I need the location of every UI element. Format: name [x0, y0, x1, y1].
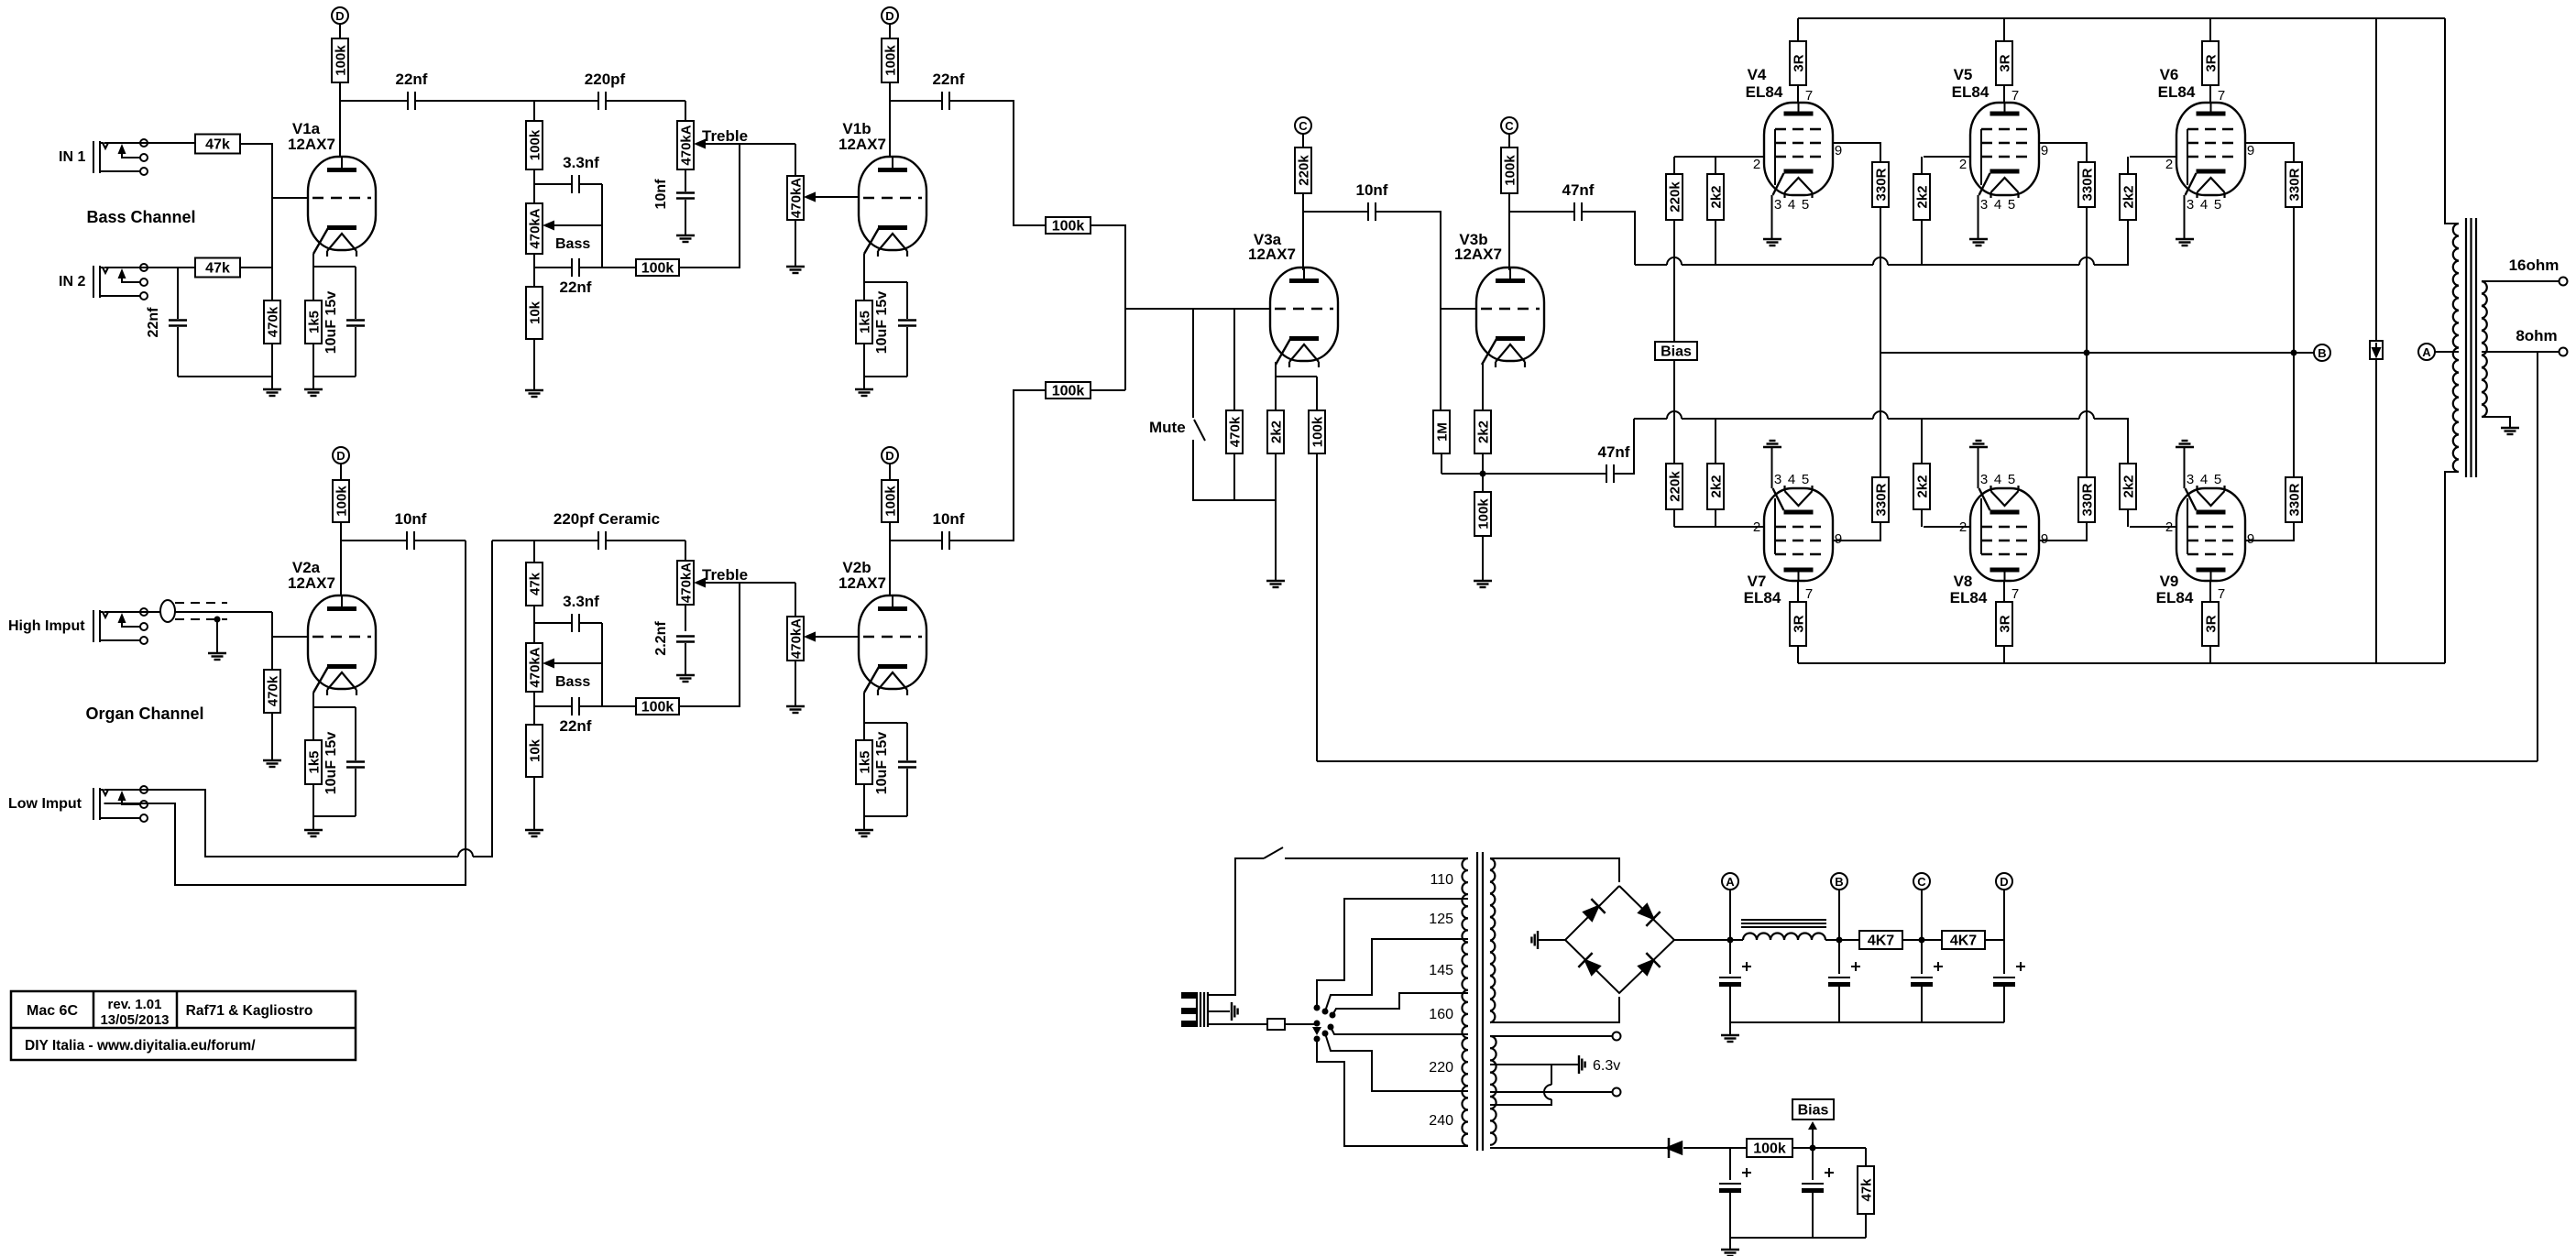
wire nfb 100k top — [1316, 377, 1318, 410]
svg-text:13/05/2013: 13/05/2013 — [100, 1012, 169, 1028]
wire V1b cathode bus — [864, 376, 907, 377]
text date — [100, 1012, 169, 1028]
text pin5 V6 — [2214, 197, 2221, 213]
wire screen V7 — [1833, 522, 1880, 541]
wire 100k to node — [1792, 1147, 1866, 1149]
wire 100k to V2b plate — [889, 522, 891, 595]
wire 220pf to treble — [606, 100, 685, 102]
junction screen bus V6 — [2291, 350, 2297, 356]
jack IN 2 — [59, 264, 148, 300]
capacitor 22nf coupling V1a — [408, 92, 415, 110]
resistor 100k V3b tail — [1474, 492, 1492, 536]
svg-text:22nf: 22nf — [560, 279, 592, 296]
text pin4 V9 — [2200, 472, 2208, 487]
wire screen V5 — [2039, 143, 2087, 162]
wire 2.2nf gnd — [685, 643, 686, 675]
text 10nf V2b — [933, 510, 965, 528]
wire 4K7 to D — [1984, 939, 2004, 941]
wire filter gnd stub — [1729, 1022, 1731, 1035]
svg-text:3.3nf: 3.3nf — [563, 593, 599, 610]
resistor 3R V8 — [1996, 602, 2013, 646]
svg-text:100k: 100k — [1476, 498, 1492, 530]
wire bridge minus — [1538, 939, 1565, 941]
svg-text:Low Imput: Low Imput — [8, 796, 82, 812]
svg-text:EL84: EL84 — [2156, 589, 2194, 606]
ground mains chassis — [1232, 1002, 1238, 1021]
wire choke to B — [1825, 939, 1859, 941]
text Mac 6C — [27, 1003, 78, 1019]
junction B psu — [1836, 937, 1843, 944]
wire organ stack top — [492, 540, 598, 541]
ground cathode V6 — [2176, 239, 2194, 246]
svg-text:9: 9 — [2041, 531, 2048, 547]
wire 220pf organ to treble — [606, 540, 685, 541]
svg-text:B: B — [1835, 875, 1843, 889]
svg-text:5: 5 — [1802, 472, 1809, 487]
svg-text:5: 5 — [2008, 197, 2015, 213]
wire D cap top — [2003, 940, 2005, 974]
resistor 1k5 V1b — [856, 300, 873, 344]
triode V1a 12AX7 — [308, 157, 376, 257]
text pin4 V7 — [1788, 472, 1795, 487]
wire 2k2 bottom V4 — [1715, 220, 1716, 265]
svg-text:47k: 47k — [205, 137, 230, 153]
wire V3b tail node — [1441, 473, 1606, 475]
text pins345 V7 — [1774, 472, 1781, 487]
text 220pf Ceramic — [554, 510, 660, 528]
node D psu — [1996, 873, 2012, 890]
wire fuse to selector — [1285, 1023, 1314, 1025]
text EL84 V6 — [2158, 83, 2196, 101]
svg-text:470kA: 470kA — [789, 178, 805, 218]
resistor 2k2 V6 grid — [2120, 174, 2137, 220]
wire 1k5 bottom V2a — [312, 784, 314, 830]
wire 22nf to stack — [415, 100, 598, 102]
wire tap 160 — [1331, 1027, 1468, 1034]
wire V2b cathode bus — [864, 815, 907, 817]
wire 3R V9 bottom — [2209, 646, 2211, 663]
svg-text:330R: 330R — [1874, 483, 1890, 516]
node A psu — [1722, 873, 1738, 890]
text EL84 V7 — [1744, 589, 1781, 606]
text 10uF 15v V1a — [323, 291, 339, 355]
terminal 8ohm — [2560, 348, 2568, 356]
svg-text:470kA: 470kA — [679, 125, 695, 165]
resistor 2k2 V8 grid — [1913, 464, 1931, 509]
wire plate to 3R V9 — [2209, 581, 2211, 602]
svg-text:7: 7 — [1805, 88, 1813, 104]
wire C cap bottom — [1921, 986, 1923, 1022]
wire 3.3nf-22nf link organ — [601, 623, 603, 706]
svg-text:330R: 330R — [2287, 483, 2303, 516]
wire organ out up — [679, 583, 740, 706]
diode bridge lower-right — [1637, 953, 1660, 977]
resistor 220k V4 grid — [1666, 174, 1683, 220]
wire 2k2 bottom V7 — [1715, 509, 1716, 527]
wire 100k tone top — [533, 101, 535, 121]
text pin5 V4 — [1802, 197, 1809, 213]
capacitor 22nf coupling V1b — [942, 92, 949, 110]
svg-text:Bias: Bias — [1798, 1103, 1829, 1119]
wire 3R V6 top — [2209, 18, 2211, 41]
wire tap 125 — [1325, 939, 1468, 1011]
wire 10uF top V2b — [906, 723, 908, 760]
junction screen bus V5 — [2084, 350, 2090, 356]
svg-text:D: D — [885, 9, 893, 23]
text EL84 V4 — [1746, 83, 1783, 101]
text Bass (bass ch) — [555, 236, 590, 252]
wire 47k bias bottom — [1865, 1214, 1867, 1238]
svg-text:EL84: EL84 — [2158, 83, 2196, 101]
ground V2b cathode — [855, 830, 873, 836]
svg-text:1k5: 1k5 — [307, 311, 323, 333]
svg-text:V5: V5 — [1954, 66, 1973, 83]
text pin5 V9 — [2214, 472, 2221, 487]
wire V3b grid entry — [1441, 308, 1476, 310]
resistor 47k organ — [526, 562, 543, 606]
capacitor 220pf Ceramic — [598, 531, 606, 550]
ground 2.2nf — [676, 675, 695, 682]
svg-text:10nf: 10nf — [395, 510, 427, 528]
wire top rail to OPT — [2445, 18, 2459, 224]
pentode V9 EL84 — [2176, 486, 2245, 581]
resistor 100k mixer bottom — [1046, 382, 1091, 399]
text pin2 V7 — [1753, 519, 1760, 535]
svg-text:10k: 10k — [528, 300, 543, 324]
potentiometer 470kA V2b grid — [787, 617, 816, 661]
wire 3.3nf left — [534, 183, 571, 185]
wire V2b cathode to 10uF — [864, 722, 907, 724]
wire bottom grid bus c — [2094, 418, 2129, 420]
text V8 — [1954, 573, 1973, 590]
capacitor 22nf organ slope — [572, 697, 579, 715]
svg-text:330R: 330R — [2080, 168, 2096, 201]
text High Imput — [8, 618, 85, 634]
wire plug mid pin — [1208, 1010, 1230, 1012]
svg-text:1M: 1M — [1435, 422, 1451, 442]
resistor 330R V8 — [2078, 477, 2096, 522]
ground V1b pot — [786, 267, 805, 273]
ground shield — [208, 653, 226, 660]
wire heater tap2 — [1490, 1091, 1613, 1093]
wire tone out to 100k — [602, 267, 636, 268]
wire V2b grid — [812, 636, 859, 638]
wire C circle — [1921, 890, 1923, 940]
svg-text:Bias: Bias — [1661, 344, 1692, 360]
wire 1M bottom — [1441, 453, 1442, 474]
wire treble top organ — [685, 541, 686, 561]
svg-text:145: 145 — [1429, 963, 1453, 978]
text pin2 V9 — [2165, 519, 2173, 535]
svg-text:2k2: 2k2 — [1269, 420, 1285, 443]
svg-text:9: 9 — [2247, 143, 2254, 158]
ground V1a cathode — [304, 389, 323, 396]
wire 10nf to gnd — [685, 200, 686, 235]
svg-text:10nf: 10nf — [933, 510, 965, 528]
svg-text:2k2: 2k2 — [1709, 475, 1725, 497]
ground treble bass — [676, 235, 695, 242]
wire B cap bottom — [1838, 986, 1840, 1022]
wire 22nf right — [580, 267, 602, 268]
wire 220k to plate — [1302, 193, 1304, 270]
text pin9 V4 — [1835, 143, 1842, 158]
wire V2a grid entry — [271, 612, 273, 670]
text 10nf interstage — [1356, 181, 1388, 199]
text V9 — [2160, 573, 2179, 590]
wire 330R V6 to screen bus — [2293, 207, 2295, 353]
text pin9 V5 — [2041, 143, 2048, 158]
wire V1b pot bottom — [795, 220, 796, 267]
text tap 240 — [1429, 1113, 1453, 1129]
wire V2b pot top — [795, 583, 796, 617]
wire V2b plate node — [890, 540, 942, 541]
resistor 220k V3a plate — [1295, 147, 1312, 193]
wire cathode gnd V6 — [2184, 195, 2186, 239]
svg-text:2k2: 2k2 — [1915, 475, 1931, 497]
wire V3b plate node — [1509, 211, 1574, 213]
svg-text:C: C — [1299, 119, 1308, 133]
resistor 1k5 V2a — [305, 740, 323, 784]
text 47nf upper — [1562, 181, 1595, 199]
svg-text:330R: 330R — [2080, 483, 2096, 516]
resistor 4K7 second — [1942, 931, 1985, 949]
text pin2 V5 — [1959, 157, 1967, 172]
wire 3.3nf right organ — [580, 622, 602, 624]
ground V3a cathode — [1266, 581, 1285, 587]
wire 3R V5 top — [2003, 18, 2005, 41]
text pin2 V6 — [2165, 157, 2173, 172]
capacitor filter D — [1993, 962, 2025, 987]
svg-text:4: 4 — [1788, 197, 1795, 213]
svg-text:EL84: EL84 — [1952, 83, 1990, 101]
svg-text:7: 7 — [2218, 586, 2225, 602]
transformer OPT core — [2466, 218, 2476, 477]
text tap 160 — [1429, 1007, 1453, 1022]
wire organ node1 — [533, 606, 535, 643]
svg-text:470k: 470k — [1228, 416, 1244, 447]
svg-text:5: 5 — [1802, 197, 1809, 213]
text Mute — [1149, 419, 1186, 436]
svg-text:5: 5 — [2008, 472, 2015, 487]
wire 470k to gnd — [271, 344, 273, 389]
wire screen bus — [1880, 352, 2314, 354]
svg-text:10nf: 10nf — [653, 179, 669, 210]
resistor 47k bias — [1858, 1166, 1875, 1214]
wire V2a plate node — [341, 540, 405, 541]
wire D to 100k V2a — [340, 464, 342, 480]
wire bass wiper organ — [554, 662, 602, 664]
node D supply (V2b plate) — [882, 447, 898, 464]
wire cathode gnd V9 — [2184, 447, 2186, 488]
junction selector 2 — [1322, 1009, 1329, 1015]
capacitor filter B — [1828, 962, 1860, 987]
text pin7 V6 — [2218, 88, 2225, 104]
svg-text:4: 4 — [2200, 197, 2208, 213]
node D supply (V1a plate) — [332, 7, 348, 24]
text pin4 V8 — [1994, 472, 2001, 487]
resistor 10k organ — [526, 725, 543, 777]
junction selector 1 — [1314, 1005, 1321, 1011]
wire bias cap2 tap — [1812, 1148, 1814, 1180]
wire 10uF top — [355, 267, 356, 319]
wire 10uF bottom V2a — [355, 769, 356, 816]
wire heater center link — [1551, 1065, 1552, 1085]
wire 2k2 V3b bottom — [1482, 453, 1484, 474]
svg-text:220: 220 — [1429, 1060, 1453, 1076]
potentiometer 470kA Bass (bass ch) — [526, 203, 554, 254]
text 12AX7 V2a — [288, 574, 335, 592]
svg-text:4K7: 4K7 — [1868, 934, 1894, 949]
diode bridge upper-left — [1582, 899, 1605, 923]
svg-text:D: D — [885, 449, 893, 463]
resistor 3R V6 — [2202, 41, 2220, 85]
text pin7 V7 — [1805, 586, 1813, 602]
wire A to choke — [1730, 939, 1743, 941]
svg-text:9: 9 — [1835, 531, 1842, 547]
wire top grid bus a — [1635, 264, 1667, 266]
pentode V7 EL84 — [1764, 486, 1833, 581]
svg-text:High Imput: High Imput — [8, 618, 85, 634]
wire 220k V4 top — [1673, 157, 1675, 174]
text EL84 V5 — [1952, 83, 1990, 101]
wire 2k2 top V6 — [2127, 157, 2129, 174]
diode bridge upper-right — [1637, 902, 1660, 926]
wire 3R to plate V4 — [1797, 85, 1799, 103]
svg-text:5: 5 — [2214, 197, 2221, 213]
text EL84 V8 — [1950, 589, 1988, 606]
box Bias output stage — [1655, 342, 1697, 360]
svg-text:47k: 47k — [528, 572, 543, 595]
text tap 110 — [1430, 872, 1453, 888]
svg-text:C: C — [1505, 119, 1514, 133]
wire grid V5 — [1924, 156, 1970, 158]
wire V2b pot bottom — [795, 661, 796, 706]
wire bass wiper — [554, 224, 602, 226]
wire 2k2 bottom V5 — [1921, 220, 1923, 265]
wire OPT secondary gnd — [2482, 417, 2510, 428]
svg-text:2k2: 2k2 — [1709, 185, 1725, 208]
text 220pf — [585, 71, 626, 88]
text 22nf rotated — [146, 307, 161, 338]
svg-text:100k: 100k — [1052, 384, 1085, 399]
text Low Imput — [8, 796, 82, 812]
selector arrow — [1312, 1027, 1321, 1035]
wire B circle — [1838, 890, 1840, 940]
wire 47nf to top bus — [1582, 212, 1635, 265]
resistor 470k V1a grid — [264, 300, 281, 344]
wire treble wiper organ — [706, 582, 740, 584]
svg-text:V8: V8 — [1954, 573, 1973, 590]
wire 10uF top V1b — [906, 282, 908, 319]
text 12AX7 V3b — [1454, 246, 1502, 263]
wire 10uF bottom V2b — [906, 769, 908, 816]
diode bridge lower-left — [1578, 953, 1601, 977]
wire tone node1 — [533, 169, 535, 203]
wire bottom rail to OPT — [2445, 472, 2459, 663]
svg-text:22nf: 22nf — [560, 717, 592, 735]
wire grid V9 — [2130, 526, 2176, 528]
wire D to 100k V2b — [889, 464, 891, 480]
wire plate to 3R V8 — [2003, 581, 2005, 602]
svg-text:100k: 100k — [641, 261, 674, 277]
svg-text:9: 9 — [1835, 143, 1842, 158]
svg-text:110: 110 — [1430, 872, 1453, 888]
text pin4 V4 — [1788, 197, 1795, 213]
wire A circle — [1729, 890, 1731, 940]
wire grid V7 — [1674, 526, 1764, 528]
wire low tip run2 — [473, 541, 492, 857]
hop top bus over 330R V5 — [2079, 257, 2094, 265]
wire V2b out to mixer — [949, 390, 1046, 541]
triode V3a 12AX7 — [1270, 268, 1338, 367]
svg-text:2: 2 — [1753, 157, 1760, 172]
capacitor filter A — [1719, 962, 1751, 987]
ground OPT secondary — [2501, 428, 2519, 434]
svg-text:47k: 47k — [205, 261, 230, 277]
ground cathode V4 — [1763, 239, 1781, 246]
capacitor 10uF 15v V2a — [346, 762, 365, 768]
svg-text:100k: 100k — [334, 486, 350, 517]
capacitor 10nf coupling V2b — [942, 531, 949, 550]
text pins345 V5 — [1980, 197, 1988, 213]
wire V3b cathode — [1482, 362, 1484, 410]
wire 100k to V2a plate — [340, 522, 342, 595]
resistor 3R V7 — [1790, 602, 1807, 646]
wire 3R V4 top — [1797, 18, 1799, 41]
svg-text:220pf: 220pf — [585, 71, 626, 88]
text 12AX7 V1a — [288, 136, 335, 153]
hop top bus over 330R V4 — [1873, 257, 1888, 265]
capacitor 10nf coupling V2a — [407, 531, 414, 550]
connector arrow box — [2370, 341, 2383, 359]
text EL84 V9 — [2156, 589, 2194, 606]
resistor 330R V7 — [1872, 477, 1890, 522]
text 6.3v — [1593, 1058, 1620, 1074]
resistor 220k V7 grid — [1666, 464, 1683, 509]
ground cathode V8 — [1969, 441, 1988, 447]
svg-text:10uF 15v: 10uF 15v — [323, 291, 339, 355]
svg-text:rev. 1.01: rev. 1.01 — [108, 997, 162, 1012]
triode V1b 12AX7 — [859, 157, 926, 257]
potentiometer 470kA Treble (bass ch) — [677, 121, 706, 169]
jack Low Imput — [93, 786, 148, 822]
fuse mains — [1267, 1019, 1285, 1030]
svg-text:220k: 220k — [1668, 181, 1683, 213]
wire 2k2 bottom V8 — [1921, 509, 1923, 527]
svg-text:4: 4 — [1994, 472, 2001, 487]
svg-text:A: A — [2422, 345, 2431, 359]
wire V1b cathode to 10uF — [864, 281, 907, 283]
svg-text:3R: 3R — [1998, 615, 2013, 632]
resistor 3R V9 — [2202, 602, 2220, 646]
wire low ring run — [104, 541, 466, 885]
junction selector 3 — [1330, 1012, 1336, 1019]
text 3.3nf organ — [563, 593, 599, 610]
text diy italia — [25, 1038, 256, 1054]
text 22nf V1b — [933, 71, 965, 88]
wire bottom grid bus a — [1634, 418, 1667, 420]
triode V2b 12AX7 — [859, 595, 926, 695]
svg-text:7: 7 — [1805, 586, 1813, 602]
wire 3R to plate V5 — [2003, 85, 2005, 103]
wire IN1 tip to 47k — [104, 142, 196, 144]
wire bias box to 220k V7 — [1673, 360, 1675, 464]
transformer OPT primary winding — [2453, 224, 2459, 472]
text pins345 V8 — [1980, 472, 1988, 487]
wire treble top — [685, 101, 686, 121]
junction bias node — [1810, 1145, 1816, 1152]
wire top grid bus c — [2094, 264, 2129, 266]
